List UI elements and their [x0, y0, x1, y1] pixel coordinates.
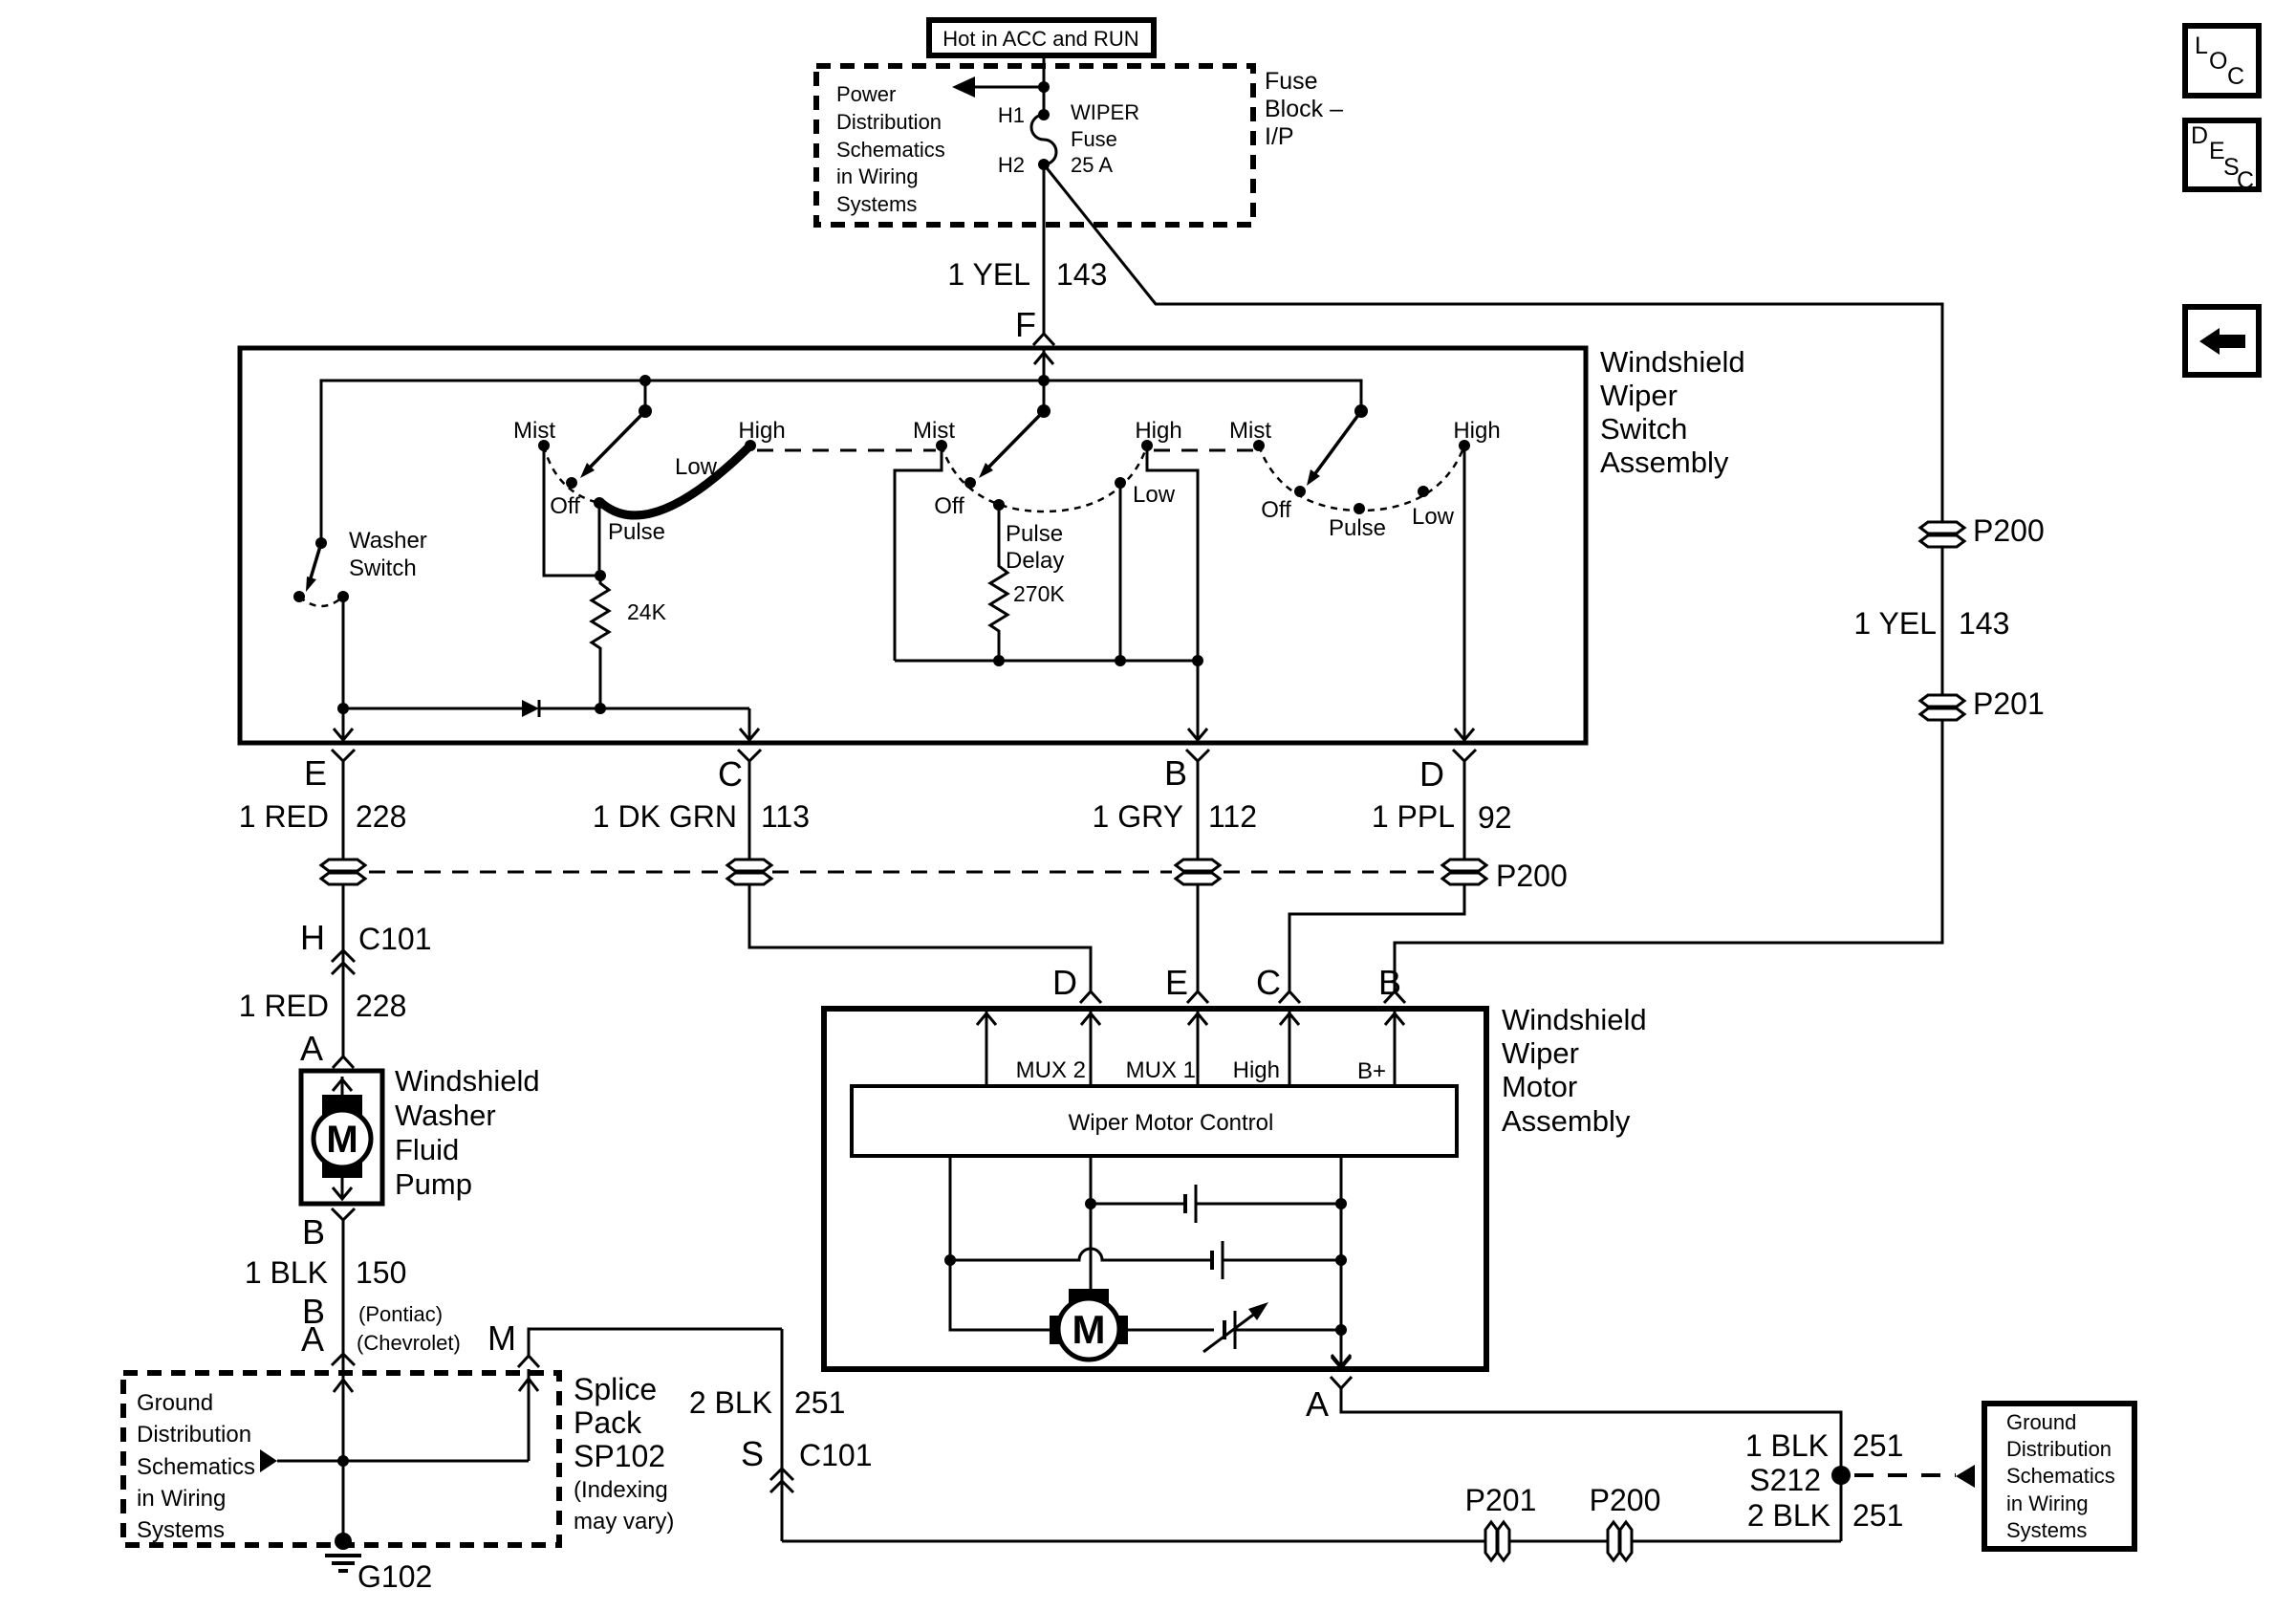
- svg-text:D: D: [2191, 122, 2208, 149]
- svg-text:1 RED: 1 RED: [239, 989, 329, 1023]
- svg-text:Ground: Ground: [2006, 1410, 2076, 1434]
- svg-text:92: 92: [1478, 800, 1512, 835]
- svg-text:Low: Low: [1412, 504, 1455, 530]
- svg-text:2 BLK: 2 BLK: [1747, 1498, 1830, 1533]
- svg-text:MUX 2: MUX 2: [1016, 1057, 1086, 1083]
- svg-text:Pulse: Pulse: [608, 519, 665, 545]
- svg-text:E: E: [1165, 963, 1188, 1002]
- svg-text:in Wiring: in Wiring: [2006, 1491, 2089, 1515]
- svg-text:Mist: Mist: [513, 418, 555, 444]
- svg-text:Windshield: Windshield: [1600, 345, 1745, 379]
- svg-text:Switch: Switch: [349, 555, 417, 581]
- svg-text:(Indexing: (Indexing: [574, 1477, 668, 1503]
- svg-text:L: L: [2195, 33, 2208, 59]
- svg-text:S212: S212: [1749, 1463, 1821, 1497]
- svg-text:Washer: Washer: [395, 1099, 496, 1132]
- svg-text:Ground: Ground: [137, 1390, 213, 1416]
- svg-text:Distribution: Distribution: [836, 110, 942, 134]
- svg-text:Wiper: Wiper: [1502, 1036, 1579, 1070]
- svg-text:25 A: 25 A: [1071, 153, 1113, 177]
- svg-text:Distribution: Distribution: [2006, 1437, 2112, 1461]
- svg-text:Wiper Motor Control: Wiper Motor Control: [1069, 1110, 1274, 1136]
- svg-text:270K: 270K: [1013, 581, 1065, 606]
- svg-text:228: 228: [356, 799, 406, 834]
- svg-text:O: O: [2209, 48, 2227, 75]
- svg-text:1 YEL: 1 YEL: [947, 257, 1030, 292]
- svg-text:C: C: [1256, 963, 1281, 1002]
- svg-text:Washer: Washer: [349, 528, 427, 554]
- svg-text:Fluid: Fluid: [395, 1133, 459, 1166]
- svg-text:High: High: [1453, 418, 1500, 444]
- svg-text:High: High: [1233, 1057, 1280, 1083]
- svg-text:251: 251: [1852, 1498, 1903, 1533]
- svg-text:1 RED: 1 RED: [239, 799, 329, 834]
- svg-text:Pack: Pack: [574, 1405, 642, 1440]
- svg-text:1 DK GRN: 1 DK GRN: [593, 799, 737, 834]
- svg-text:(Chevrolet): (Chevrolet): [357, 1331, 461, 1355]
- svg-text:C: C: [2237, 167, 2254, 194]
- svg-text:1 PPL: 1 PPL: [1372, 799, 1455, 834]
- svg-text:C: C: [2227, 63, 2244, 90]
- svg-text:M: M: [326, 1119, 357, 1161]
- svg-text:P200: P200: [1590, 1483, 1661, 1517]
- svg-text:Schematics: Schematics: [836, 138, 945, 162]
- svg-text:(Pontiac): (Pontiac): [358, 1302, 443, 1326]
- svg-text:C: C: [718, 754, 743, 794]
- svg-text:Assembly: Assembly: [1502, 1104, 1631, 1138]
- svg-text:Windshield: Windshield: [1502, 1003, 1647, 1036]
- svg-text:B+: B+: [1357, 1058, 1386, 1084]
- svg-text:A: A: [301, 1319, 324, 1359]
- svg-text:P200: P200: [1496, 859, 1568, 893]
- svg-text:H2: H2: [998, 153, 1025, 177]
- svg-text:B: B: [302, 1212, 325, 1252]
- svg-text:Windshield: Windshield: [395, 1064, 540, 1098]
- svg-text:MUX 1: MUX 1: [1126, 1057, 1196, 1083]
- svg-text:143: 143: [1056, 257, 1107, 292]
- svg-text:C101: C101: [358, 922, 432, 956]
- svg-text:Hot in ACC and RUN: Hot in ACC and RUN: [942, 27, 1138, 51]
- svg-text:B: B: [1164, 753, 1187, 793]
- svg-text:Delay: Delay: [1006, 548, 1064, 574]
- svg-text:Motor: Motor: [1502, 1070, 1577, 1103]
- svg-text:Schematics: Schematics: [137, 1454, 255, 1480]
- svg-text:Mist: Mist: [913, 418, 955, 444]
- svg-text:Systems: Systems: [836, 192, 917, 216]
- svg-text:Off: Off: [934, 493, 964, 519]
- svg-text:A: A: [300, 1029, 323, 1068]
- svg-text:WIPER: WIPER: [1071, 100, 1139, 124]
- svg-text:SP102: SP102: [574, 1439, 665, 1473]
- svg-text:D: D: [1052, 963, 1077, 1002]
- svg-text:143: 143: [1959, 606, 2009, 641]
- svg-text:Systems: Systems: [2006, 1518, 2087, 1542]
- svg-text:Block –: Block –: [1265, 96, 1343, 122]
- svg-text:B: B: [1378, 963, 1401, 1002]
- svg-text:251: 251: [794, 1385, 845, 1420]
- svg-text:1 GRY: 1 GRY: [1093, 799, 1183, 834]
- svg-text:1 YEL: 1 YEL: [1853, 606, 1937, 641]
- svg-text:M: M: [1072, 1307, 1106, 1352]
- svg-text:High: High: [1135, 418, 1181, 444]
- svg-text:High: High: [738, 418, 785, 444]
- svg-text:I/P: I/P: [1265, 123, 1294, 150]
- svg-text:251: 251: [1852, 1428, 1903, 1463]
- svg-text:P200: P200: [1973, 513, 2045, 548]
- svg-text:D: D: [1419, 754, 1444, 794]
- svg-text:24K: 24K: [627, 599, 667, 624]
- svg-text:in Wiring: in Wiring: [137, 1486, 226, 1512]
- svg-text:G102: G102: [357, 1559, 432, 1594]
- svg-text:Distribution: Distribution: [137, 1422, 251, 1448]
- svg-text:Fuse: Fuse: [1265, 68, 1318, 95]
- svg-text:H: H: [300, 918, 325, 957]
- svg-text:150: 150: [356, 1255, 406, 1290]
- svg-text:Low: Low: [675, 454, 718, 480]
- svg-text:in Wiring: in Wiring: [836, 164, 919, 188]
- svg-text:1 BLK: 1 BLK: [245, 1255, 328, 1290]
- svg-text:Off: Off: [550, 493, 580, 519]
- svg-text:Pulse: Pulse: [1329, 515, 1386, 541]
- svg-text:Systems: Systems: [137, 1517, 225, 1543]
- svg-text:may vary): may vary): [574, 1509, 674, 1535]
- svg-text:Fuse: Fuse: [1071, 127, 1117, 151]
- svg-text:Pulse: Pulse: [1006, 521, 1063, 547]
- svg-text:112: 112: [1208, 799, 1257, 834]
- svg-text:Assembly: Assembly: [1600, 446, 1729, 479]
- svg-text:228: 228: [356, 989, 406, 1023]
- svg-text:Off: Off: [1261, 497, 1291, 523]
- svg-text:2 BLK: 2 BLK: [689, 1385, 772, 1420]
- svg-text:Wiper: Wiper: [1600, 379, 1678, 412]
- svg-text:Power: Power: [836, 82, 896, 106]
- svg-text:Pump: Pump: [395, 1167, 472, 1201]
- svg-text:Schematics: Schematics: [2006, 1464, 2115, 1488]
- svg-text:Switch: Switch: [1600, 412, 1687, 446]
- svg-text:S: S: [741, 1434, 764, 1473]
- svg-text:H1: H1: [998, 103, 1025, 127]
- svg-text:C101: C101: [799, 1438, 873, 1472]
- svg-text:Mist: Mist: [1229, 418, 1271, 444]
- svg-text:M: M: [487, 1318, 516, 1358]
- svg-text:F: F: [1015, 305, 1036, 344]
- svg-text:A: A: [1306, 1384, 1329, 1424]
- svg-text:Low: Low: [1133, 482, 1176, 508]
- svg-text:Splice: Splice: [574, 1372, 657, 1406]
- svg-text:P201: P201: [1465, 1483, 1537, 1517]
- svg-text:P201: P201: [1973, 686, 2045, 721]
- svg-text:113: 113: [761, 799, 810, 834]
- svg-text:1 BLK: 1 BLK: [1745, 1428, 1829, 1463]
- svg-text:E: E: [304, 753, 327, 793]
